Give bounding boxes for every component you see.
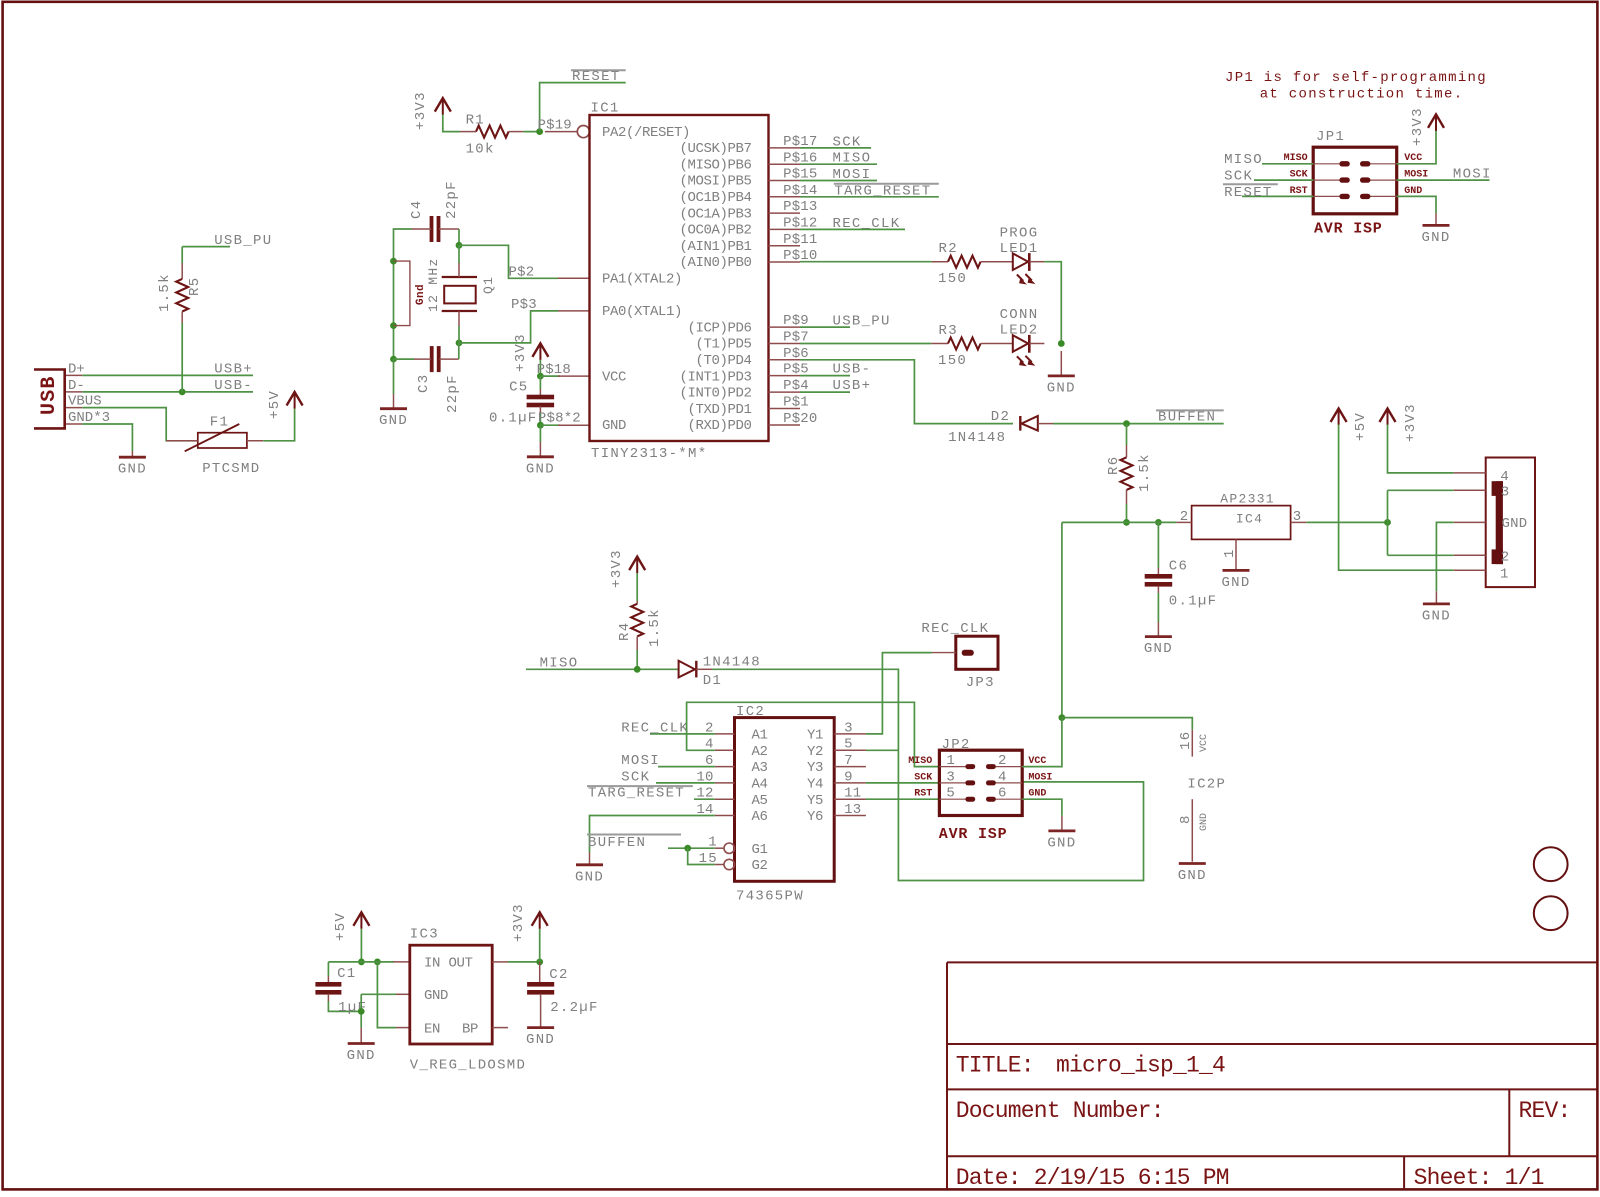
connector JP2 AVR ISP <box>908 737 1052 843</box>
capacitor C3 22pF <box>413 346 461 413</box>
node label TARG_RESET (overbar) <box>834 183 939 199</box>
svg-text:C4: C4 <box>409 200 425 219</box>
svg-text:12 MHz: 12 MHz <box>426 257 441 312</box>
svg-text:0.1µF: 0.1µF <box>1169 594 1218 610</box>
pin lead IC1 P$8*2 <box>558 424 590 426</box>
wire Y5 to JP2 pin5 <box>866 798 940 800</box>
svg-text:V_REG_LDOSMD: V_REG_LDOSMD <box>410 1058 526 1074</box>
connector JP3 REC_CLK <box>921 621 998 691</box>
svg-text:GND: GND <box>118 462 147 478</box>
svg-text:RESET: RESET <box>1224 185 1273 201</box>
svg-text:6: 6 <box>998 786 1007 802</box>
svg-text:1: 1 <box>1500 567 1509 583</box>
junction IN node C1 <box>358 959 365 966</box>
svg-text:GND: GND <box>1422 608 1451 624</box>
wire SCK to A4 <box>656 782 715 784</box>
svg-text:GND: GND <box>1178 868 1207 884</box>
capacitor C5 0.1uF <box>489 376 554 426</box>
junction VCC node above JP2 <box>1059 714 1066 721</box>
svg-text:MISO: MISO <box>540 655 579 671</box>
node label MOSI at JP1 <box>1453 167 1492 183</box>
pin lead IC1 P$16 <box>769 163 801 165</box>
svg-text:R2: R2 <box>939 241 958 257</box>
wire XTAL1 to IC1 P$3 <box>459 311 558 343</box>
svg-text:GND: GND <box>1199 813 1210 831</box>
svg-text:9: 9 <box>844 769 853 785</box>
wire to IC1 P$8*2 <box>540 424 560 426</box>
capacitor C2 2.2uF <box>527 962 599 1028</box>
capacitor C1 1uF <box>315 962 367 1016</box>
node label USB+ <box>214 362 253 378</box>
wire R6/C6 node to IC4 pin2 <box>1062 521 1177 523</box>
svg-text:BUFFEN: BUFFEN <box>1158 410 1216 426</box>
svg-text:REV:: REV: <box>1519 1098 1571 1124</box>
junction IC4 out to conn <box>1384 519 1391 526</box>
svg-text:150: 150 <box>938 353 967 369</box>
svg-text:C6: C6 <box>1169 559 1188 575</box>
title block frame <box>947 962 1597 1189</box>
svg-text:(INT0)PD2: (INT0)PD2 <box>679 386 751 402</box>
svg-text:1: 1 <box>946 753 955 769</box>
svg-text:1.5k: 1.5k <box>647 608 663 647</box>
svg-text:(AIN0)PB0: (AIN0)PB0 <box>679 255 751 271</box>
svg-text:EN: EN <box>424 1021 440 1037</box>
IC IC3 V_REG_LDOSMD body <box>410 927 526 1074</box>
power +3V3 at connector <box>1380 403 1420 442</box>
svg-text:SCK: SCK <box>914 772 932 783</box>
svg-text:+3V3: +3V3 <box>511 903 527 942</box>
wire GND*3 down <box>82 424 132 451</box>
svg-text:AP2331: AP2331 <box>1220 491 1275 506</box>
connector JP1 AVR ISP <box>1284 129 1429 237</box>
wire A2 to JP2 pin1 <box>687 702 940 766</box>
junction RESET node <box>536 128 543 135</box>
pin number P$18 <box>537 362 571 378</box>
wire net MOSI stub <box>800 180 877 182</box>
junction rail-C3 <box>390 356 397 363</box>
IC1 internal pin names <box>602 125 752 434</box>
svg-text:(T0)PD4: (T0)PD4 <box>695 353 751 369</box>
svg-text:(ICP)PD6: (ICP)PD6 <box>687 320 751 336</box>
svg-text:A6: A6 <box>752 809 768 825</box>
wire JP1 MOSI <box>1397 179 1490 181</box>
pin number P$16 <box>783 150 817 166</box>
wire rail to gnd <box>360 994 362 1027</box>
IC2P label <box>1187 777 1226 793</box>
svg-text:IN: IN <box>424 956 440 972</box>
pin number 12 <box>696 786 713 802</box>
pin number 11 <box>844 786 861 802</box>
wire +3V3 to conn pin4 <box>1388 425 1454 473</box>
IC IC2 74365PW body <box>735 704 835 905</box>
wire C4 right to xtal top <box>458 229 460 245</box>
pin number P$17 <box>783 134 817 150</box>
svg-text:IC1: IC1 <box>591 101 620 117</box>
pin lead IC2 pin 12 <box>715 798 735 800</box>
svg-text:150: 150 <box>938 271 967 287</box>
pin lead IC2 pin 2 <box>715 733 735 735</box>
diode D1 1N4148 <box>679 654 761 688</box>
LED LED2 CONN <box>1000 307 1045 366</box>
wire net USB_PU stub at IC1 <box>800 326 850 328</box>
svg-text:(TXD)PD1: (TXD)PD1 <box>687 402 751 418</box>
pin number P$5 <box>783 362 809 378</box>
pin lead IC2 pin 14 <box>715 815 735 817</box>
svg-text:P$8*2: P$8*2 <box>538 411 581 427</box>
ground under C5 <box>526 442 555 477</box>
svg-text:R1: R1 <box>466 112 485 128</box>
svg-text:MISO: MISO <box>1224 152 1263 168</box>
svg-text:GND: GND <box>1221 575 1250 591</box>
wire EN branch <box>377 962 396 1028</box>
svg-text:GND: GND <box>526 461 555 477</box>
svg-text:OUT: OUT <box>449 956 473 972</box>
wire P$6 to D2 <box>800 360 1013 424</box>
IC2 internal pin names <box>752 728 824 875</box>
pin lead IC2 pin 11 <box>834 798 866 800</box>
fuse F1 PTCSMD <box>166 415 263 478</box>
svg-text:5: 5 <box>844 737 853 753</box>
svg-text:F1: F1 <box>210 415 229 431</box>
wire VCC down to JP2 pin2 <box>1022 718 1062 767</box>
svg-text:(OC1A)PB3: (OC1A)PB3 <box>679 206 751 222</box>
node label REC_CLK at IC2 <box>621 720 689 736</box>
svg-text:JP1: JP1 <box>1316 129 1345 145</box>
ground under LEDs <box>1047 351 1076 396</box>
svg-text:A1: A1 <box>752 728 768 744</box>
svg-text:2.2µF: 2.2µF <box>550 1000 599 1016</box>
pin lead IC1 P$13 <box>769 212 801 214</box>
svg-text:+3V3: +3V3 <box>413 91 429 130</box>
diode D2 1N4148 <box>948 409 1053 446</box>
junction rail-Gnd bottom <box>390 322 397 329</box>
wire A6 to gnd <box>590 816 715 853</box>
junction MISO-R4 <box>634 666 641 673</box>
svg-text:AVR ISP: AVR ISP <box>939 826 1008 843</box>
capacitor C4 22pF <box>409 180 460 242</box>
power +5V at F1 <box>267 390 303 419</box>
IC IC4 AP2331 <box>1177 491 1307 569</box>
svg-text:MOSI: MOSI <box>1453 167 1492 183</box>
pin number P$13 <box>783 199 817 215</box>
svg-text:TARG_RESET: TARG_RESET <box>588 786 685 802</box>
wire R1 to P$19 <box>523 131 543 133</box>
svg-text:(UCSK)PB7: (UCSK)PB7 <box>679 141 751 157</box>
pin number 4 <box>705 737 714 753</box>
svg-text:3: 3 <box>844 720 853 736</box>
svg-text:13: 13 <box>844 802 861 818</box>
svg-text:P$20: P$20 <box>783 411 817 427</box>
wire net MISO row <box>526 668 679 670</box>
svg-text:1N4148: 1N4148 <box>703 654 761 670</box>
pin lead IC1 P$15 <box>769 180 801 182</box>
svg-text:USB: USB <box>38 375 61 415</box>
pin number P$2 <box>509 264 535 280</box>
svg-text:SCK: SCK <box>1224 168 1253 184</box>
wire XTAL2 to IC1 P$2 <box>459 245 558 278</box>
svg-text:1.5k: 1.5k <box>157 273 173 312</box>
node label MISO at JP1 <box>1224 152 1263 168</box>
title block REV text <box>1519 1098 1571 1124</box>
pin number P$10 <box>783 248 817 264</box>
svg-text:VCC: VCC <box>1028 756 1046 767</box>
svg-text:GND: GND <box>575 869 604 885</box>
wire JP1 MISO <box>1262 163 1313 165</box>
note text self-programming <box>1225 70 1487 103</box>
pin lead IC2 pin 5 <box>834 749 866 751</box>
power +3V3 at R4 <box>609 549 645 588</box>
wire C3 left to rail <box>394 358 415 360</box>
node label USB- at IC1 <box>833 362 872 378</box>
svg-text:10k: 10k <box>466 142 495 158</box>
resistor R6 1.5k <box>1106 424 1153 523</box>
svg-text:SCK: SCK <box>621 769 650 785</box>
IC IC1 TINY2313 body <box>590 101 769 463</box>
node label MOSI at IC2 <box>621 753 660 769</box>
junction on USB- at R5 <box>179 389 186 396</box>
pin lead IC1 P$6 <box>769 359 801 361</box>
node label RESET at JP1 (overbar) <box>1223 184 1278 201</box>
svg-text:RST: RST <box>1290 186 1308 197</box>
wire Y4 to JP2 pin3 <box>866 782 940 784</box>
svg-text:GND: GND <box>379 413 408 429</box>
svg-text:+5V: +5V <box>267 390 283 419</box>
pin lead IC3 EN <box>396 1027 410 1029</box>
pin lead IC1 P$11 <box>769 245 801 247</box>
svg-text:G2: G2 <box>752 858 768 874</box>
svg-text:3: 3 <box>1501 485 1510 501</box>
node label REC_CLK at IC1 <box>833 216 901 232</box>
svg-text:BUFFEN: BUFFEN <box>588 835 646 851</box>
wire IN row <box>328 961 394 963</box>
pin lead IC2 pin 7 <box>834 766 866 768</box>
node label TARG_RESET at IC2 (overbar) <box>587 786 693 802</box>
capacitor C6 0.1uF <box>1145 522 1218 622</box>
svg-text:R6: R6 <box>1106 456 1122 475</box>
resistor R4 1.5k <box>617 573 663 669</box>
inversion circle IC1 PA2 pin <box>577 126 589 138</box>
wire net USB_PU stub <box>182 246 230 248</box>
pin lead conn GND <box>1454 521 1486 523</box>
svg-text:USB_PU: USB_PU <box>214 233 272 249</box>
svg-text:4: 4 <box>1500 469 1509 485</box>
pin lead IC1 P$7 <box>769 343 801 345</box>
svg-text:LED2: LED2 <box>1000 323 1039 339</box>
wire xtal top lead <box>458 245 460 263</box>
node label USB- <box>214 378 253 394</box>
wire +5V to IN node <box>360 929 362 962</box>
ground under crystal rail <box>379 394 408 429</box>
svg-text:5: 5 <box>946 786 955 802</box>
wire BUFFEN to G1 <box>668 847 715 849</box>
svg-text:USB_PU: USB_PU <box>833 313 891 329</box>
wire JP1 VCC to +3V3 <box>1397 129 1436 164</box>
svg-text:RST: RST <box>914 789 932 800</box>
svg-text:+3V3: +3V3 <box>513 333 529 372</box>
svg-text:MOSI: MOSI <box>1404 170 1428 181</box>
svg-text:RESET: RESET <box>572 69 621 85</box>
svg-text:C1: C1 <box>337 966 356 982</box>
ground under USB <box>118 451 147 478</box>
svg-text:GND: GND <box>1144 641 1173 657</box>
pin lead IC1 P$14 <box>769 196 801 198</box>
svg-text:micro_isp_1_4: micro_isp_1_4 <box>1056 1053 1225 1079</box>
node label BUFFEN at IC2 (overbar) <box>587 835 681 851</box>
pin number 7 <box>844 753 853 769</box>
svg-text:1N4148: 1N4148 <box>948 430 1006 446</box>
pin lead IC1 P$4 <box>769 391 801 393</box>
wire conn GND stub <box>1436 522 1453 591</box>
node label SCK at JP1 <box>1224 168 1253 184</box>
svg-text:MOSI: MOSI <box>1028 772 1052 783</box>
pin number P$9 <box>783 313 809 329</box>
wire OUT up to arrow <box>539 929 541 962</box>
svg-text:REC_CLK: REC_CLK <box>833 216 901 232</box>
svg-text:CONN: CONN <box>1000 307 1039 323</box>
node label USB_PU at IC1 <box>833 313 891 329</box>
pin lead IC2 pin 9 <box>834 782 866 784</box>
svg-text:11: 11 <box>844 786 861 802</box>
svg-text:SCK: SCK <box>833 134 862 150</box>
pin number P$3 <box>511 297 537 313</box>
svg-text:A3: A3 <box>752 760 768 776</box>
wire P$7 to R3 <box>800 343 931 345</box>
wire net SCK stub <box>800 147 871 149</box>
svg-text:USB-: USB- <box>833 362 872 378</box>
pin lead IC3 GND <box>396 993 410 995</box>
connector 4-pin body <box>1486 458 1535 588</box>
svg-text:D2: D2 <box>991 409 1010 425</box>
svg-text:(RXD)PD0: (RXD)PD0 <box>687 418 751 434</box>
wire net MISO stub <box>800 163 877 165</box>
svg-text:PA0(XTAL1): PA0(XTAL1) <box>602 304 682 320</box>
wire C5 gnd down <box>539 425 541 442</box>
pin lead IC2 pin 10 <box>715 782 735 784</box>
svg-text:SCK: SCK <box>1290 170 1308 181</box>
node label BUFFEN (overbar) <box>1156 410 1224 426</box>
svg-text:GND: GND <box>526 1032 555 1048</box>
resistor R2 150 <box>932 241 1013 287</box>
wire JP1 GND <box>1397 196 1436 213</box>
svg-text:TITLE:: TITLE: <box>956 1053 1034 1079</box>
junction xtal top node <box>456 242 463 249</box>
svg-text:R4: R4 <box>617 622 633 641</box>
svg-text:P$19: P$19 <box>538 117 572 133</box>
wire net USB- stub at IC1 <box>800 375 850 377</box>
connector USB <box>34 361 110 428</box>
pin number 2 <box>705 720 714 736</box>
svg-text:GND: GND <box>1047 380 1076 396</box>
LED LED1 PROG <box>1000 226 1045 285</box>
svg-text:JP1 is for self-programming: JP1 is for self-programming <box>1225 70 1487 86</box>
resistor R3 150 <box>931 323 1013 369</box>
title block Sheet text <box>1414 1165 1544 1191</box>
svg-text:IC3: IC3 <box>410 927 439 943</box>
svg-text:R3: R3 <box>939 323 958 339</box>
pin lead IC3 OUT <box>492 961 508 963</box>
ground under C6 <box>1144 622 1173 657</box>
pin lead IC1 P$10 <box>769 261 801 263</box>
junction OUT node <box>536 959 543 966</box>
ground under A6 <box>575 853 604 886</box>
junction IN node EN <box>374 959 381 966</box>
svg-text:7: 7 <box>844 753 853 769</box>
pin lead IC1 P$3 <box>558 310 590 312</box>
node label MISO <box>833 151 872 167</box>
wire xtal bottom lead <box>458 326 460 343</box>
pin lead IC2 G2 with inversion circle <box>715 859 735 869</box>
mounting hole circle 2 <box>1534 896 1568 930</box>
power pin IC2P VCC pin16 <box>1178 730 1210 757</box>
junction C6 top <box>1155 519 1162 526</box>
svg-text:8: 8 <box>1178 814 1194 824</box>
node label USB_PU <box>214 233 272 249</box>
pin number 10 <box>696 769 713 785</box>
svg-text:IC4: IC4 <box>1236 512 1263 527</box>
svg-text:C5: C5 <box>509 379 528 395</box>
svg-text:TARG_RESET: TARG_RESET <box>834 183 931 199</box>
wire node down to JP2 VCC <box>1061 522 1063 717</box>
pin lead IC1 P$12 <box>769 228 801 230</box>
pin lead IC1 P$18 <box>558 375 590 377</box>
wire to conn pin2 <box>1388 554 1454 556</box>
ground under C2 <box>526 1028 555 1049</box>
svg-text:A2: A2 <box>752 744 768 760</box>
svg-text:2: 2 <box>1501 550 1510 566</box>
pin lead IC1 P$19 <box>545 131 577 133</box>
svg-text:+5V: +5V <box>1353 412 1369 441</box>
pin lead IC2 G1 with inversion circle <box>715 843 735 853</box>
svg-text:P$1: P$1 <box>783 395 809 411</box>
pin lead IC1 P$5 <box>769 375 801 377</box>
resistor R5 1.5k <box>157 247 203 392</box>
svg-text:C2: C2 <box>549 967 568 983</box>
svg-text:GND: GND <box>1047 835 1076 851</box>
node label SCK at IC2 <box>621 769 650 785</box>
pin lead IC2 pin 6 <box>715 766 735 768</box>
svg-text:1: 1 <box>1222 548 1238 558</box>
wire TARG_RESET to A5 <box>694 798 715 800</box>
svg-text:+5V: +5V <box>333 912 349 941</box>
svg-text:VCC: VCC <box>602 369 626 385</box>
junction BUFFEN-R6 <box>1123 420 1130 427</box>
svg-text:0.1µF: 0.1µF <box>489 411 538 427</box>
pin lead IC1 P$17 <box>769 147 801 149</box>
pin lead IC2 pin 13 <box>834 815 866 817</box>
pin lead IC1 P$2 <box>558 277 590 279</box>
wire LED1 to LED2 cathode rail <box>1044 262 1061 344</box>
node label SCK <box>833 134 862 150</box>
ground under JP1 <box>1421 213 1450 246</box>
svg-text:AVR ISP: AVR ISP <box>1314 220 1383 237</box>
svg-text:(MISO)PB6: (MISO)PB6 <box>679 157 751 173</box>
svg-text:USB+: USB+ <box>833 378 872 394</box>
svg-text:G1: G1 <box>752 842 768 858</box>
svg-text:P$18: P$18 <box>537 362 571 378</box>
svg-text:+3V3: +3V3 <box>609 549 625 588</box>
svg-text:C3: C3 <box>416 374 432 393</box>
svg-text:GND: GND <box>347 1048 376 1064</box>
svg-text:Y3: Y3 <box>807 760 823 776</box>
wire JP1 RESET <box>1242 195 1313 197</box>
svg-text:(MOSI)PB5: (MOSI)PB5 <box>679 174 751 190</box>
node label RESET (overbar) <box>571 69 626 85</box>
svg-text:74365PW: 74365PW <box>736 889 804 905</box>
wire Y1 to JP3 <box>866 653 932 734</box>
svg-text:22pF: 22pF <box>444 180 460 219</box>
svg-text:GND: GND <box>424 988 448 1004</box>
svg-text:VCC: VCC <box>1199 734 1210 752</box>
